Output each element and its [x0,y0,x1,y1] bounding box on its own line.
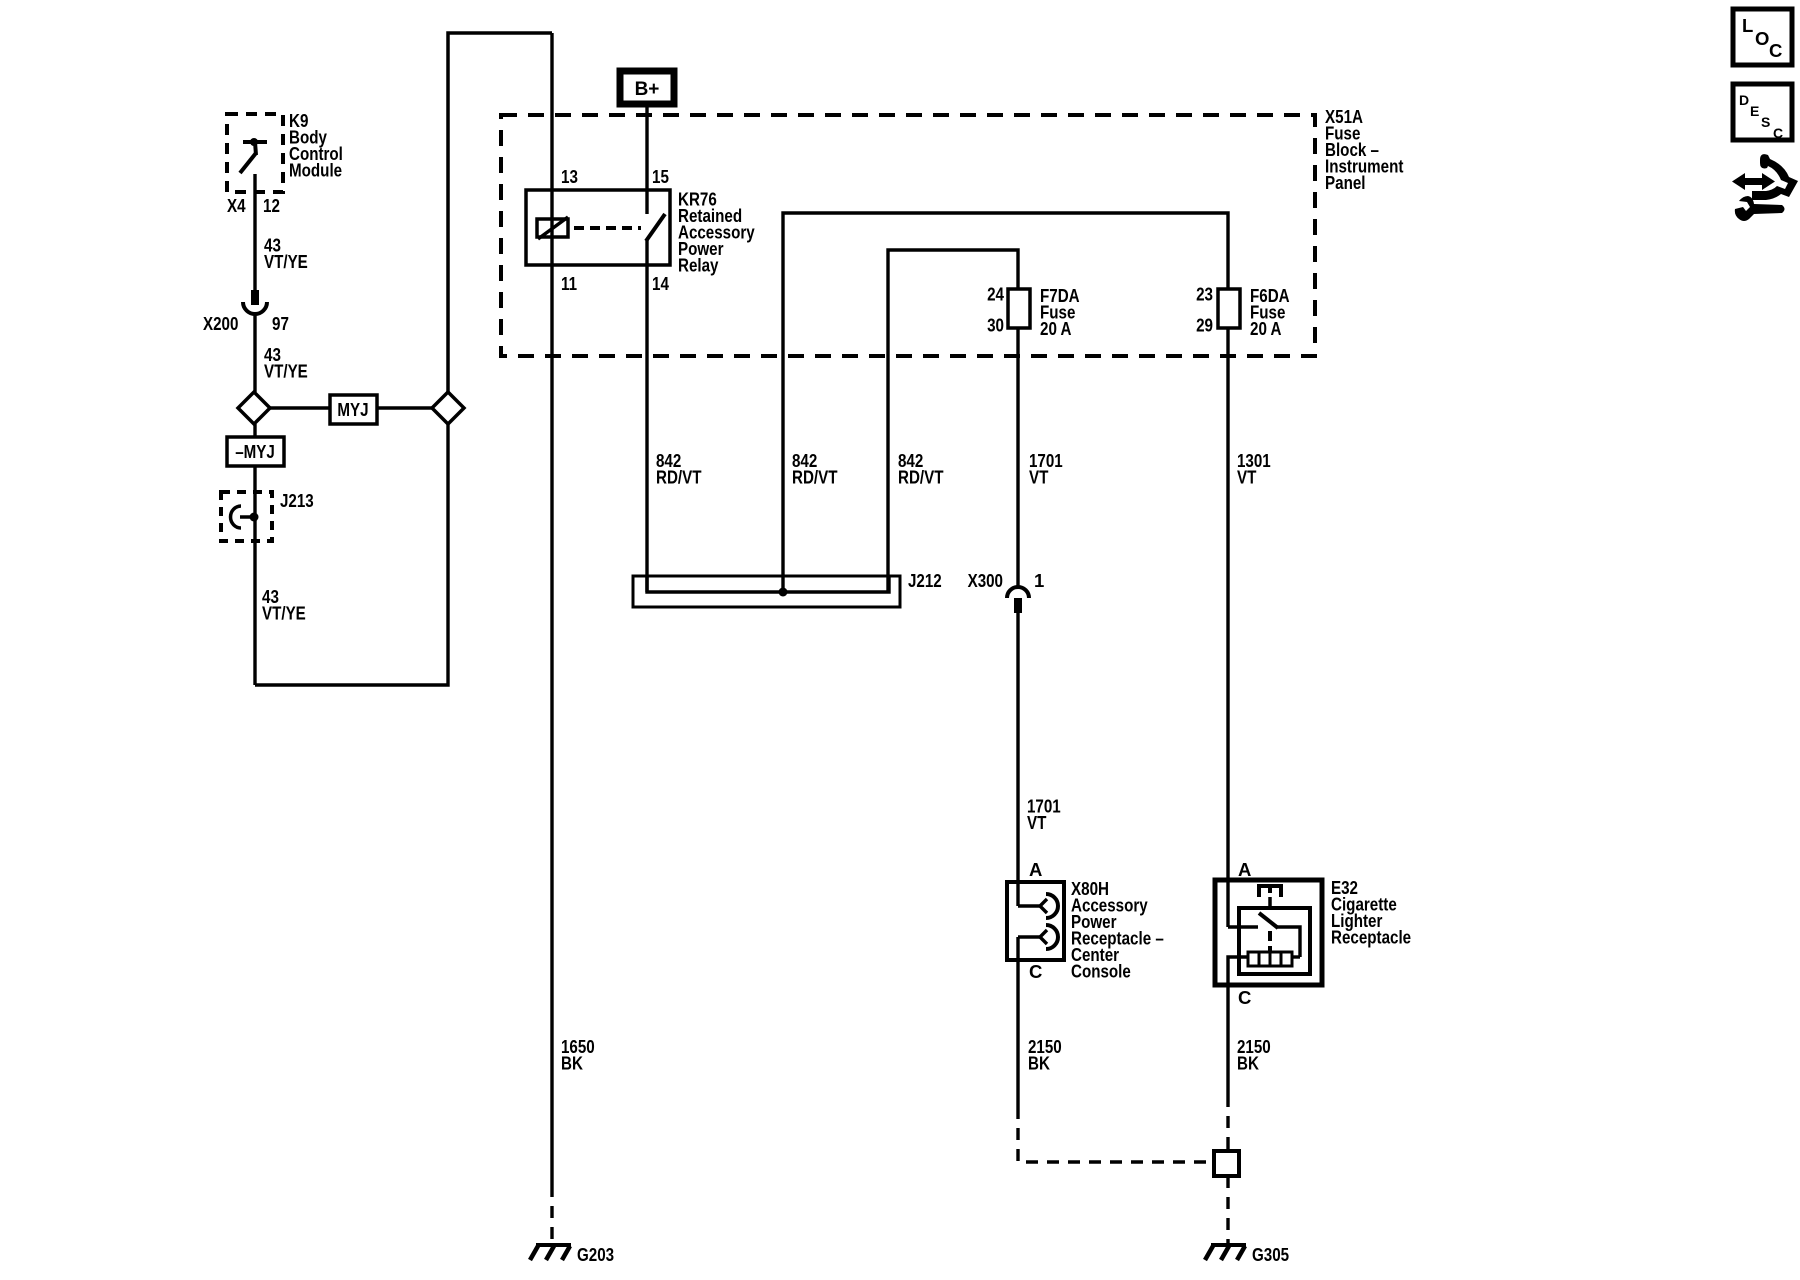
connector X4 pin 12 labels [227,195,280,216]
receptacle X80H box [1007,882,1064,960]
svg-text:1: 1 [1034,570,1044,591]
svg-text:X200: X200 [203,313,238,334]
relay KR76 box [526,190,670,265]
wire X80H pin C down [1016,960,1019,1107]
svg-text:C: C [1029,961,1042,982]
E32 plunger dashes [1268,931,1272,941]
svg-text:BK: BK [1237,1053,1259,1074]
relay switch blade [646,214,665,241]
wire label 1701 VT [1027,796,1061,834]
wire dashed E32 to junction [1226,1095,1229,1151]
wire label 43 VT/YE [264,344,308,382]
svg-text:E: E [1750,103,1759,119]
wire label 2150 BK [1237,1036,1271,1074]
svg-text:G203: G203 [577,1244,614,1265]
svg-text:J212: J212 [908,570,942,591]
E32 heater element comb [1248,952,1292,966]
svg-text:MYJ: MYJ [337,399,368,420]
connector X200 pin 97 [251,290,259,305]
svg-text:Panel: Panel [1325,172,1366,193]
wire K9 to X200 [253,174,256,291]
svg-text:RD/VT: RD/VT [656,467,702,488]
connector X300 pin 1 [1007,587,1029,598]
LOC nav box [1733,9,1792,65]
svg-text:RD/VT: RD/VT [898,467,944,488]
splice J213 (dashed box) [221,492,272,541]
E32 pin C path [1228,957,1248,1095]
wire labels 842 RD/VT x3, 1701 VT, 1301 VT [656,450,1271,488]
svg-text:VT: VT [1027,812,1047,833]
svg-text:A: A [1238,859,1251,880]
ground G305 [1205,1245,1246,1260]
svg-text:14: 14 [652,273,669,294]
diagnostic icon curved arrow [1752,154,1798,200]
svg-text:12: 12 [263,195,280,216]
diagnostic icon wrench [1735,196,1785,221]
svg-text:L: L [1742,15,1753,36]
svg-text:O: O [1755,28,1769,49]
svg-text:BK: BK [561,1053,583,1074]
wire label 43 VT/YE [262,586,306,624]
svg-text:VT: VT [1029,467,1049,488]
X80H contact C [1018,935,1040,938]
wire dashed to G203 [550,1185,553,1243]
relay link dashed [574,226,641,230]
ground junction box [1214,1151,1239,1176]
wire top-left horizontal from node to coil line [448,33,552,392]
svg-text:13: 13 [561,166,578,187]
wire dashed to ground junction [1018,1107,1214,1162]
wire below left diamond [253,424,256,437]
node diamond right [432,392,464,424]
svg-text:B+: B+ [635,79,660,100]
svg-text:24: 24 [987,284,1004,305]
svg-text:20 A: 20 A [1250,318,1282,339]
wire coil line vertical [550,33,553,1185]
svg-text:15: 15 [652,166,669,187]
svg-text:RD/VT: RD/VT [792,467,838,488]
svg-text:20 A: 20 A [1040,318,1072,339]
K9 internal driver symbol [240,138,267,173]
wire bottom loop to right diamond [255,424,448,685]
svg-text:VT/YE: VT/YE [264,361,308,382]
svg-text:Module: Module [289,160,342,181]
svg-text:X300: X300 [968,570,1003,591]
cigarette lighter E32 outer box [1215,880,1322,985]
wire F6DA to E32 [1226,328,1229,927]
svg-text:97: 97 [272,313,289,334]
svg-text:S: S [1761,114,1770,130]
E32 top contact bracket [1259,886,1281,897]
K9 label [289,110,343,181]
svg-text:Relay: Relay [678,255,719,276]
svg-text:BK: BK [1028,1053,1050,1074]
wire diamond to MYJ box [270,406,330,409]
svg-text:C: C [1773,125,1783,141]
DESC nav box [1733,84,1792,140]
splice pack J212 [633,576,900,607]
net name -MYJ box [227,437,284,466]
wire label 1650 BK [561,1036,595,1074]
wire F7DA to X300 [1016,328,1019,588]
wire relay pin 14 down to J212 [645,239,648,592]
E32 switch [1228,925,1258,928]
svg-text:23: 23 [1196,284,1213,305]
wire X300 to X80H [1016,613,1019,906]
svg-text:C: C [1238,987,1251,1008]
svg-text:11: 11 [561,273,577,294]
diagnostic icon double arrow [1732,154,1798,221]
J213 eyelet symbol [231,506,241,528]
svg-text:X4: X4 [227,195,246,216]
svg-text:A: A [1029,859,1042,880]
wire MYJ box to right diamond [377,406,432,409]
fuse F7DA 20A [1008,289,1030,328]
wire label 2150 BK [1028,1036,1062,1074]
wire fuse F7DA feed (842 RD/VT) [888,250,1018,592]
net name MYJ box [330,395,377,424]
body control module K9 (dashed box) [227,114,283,192]
svg-text:VT/YE: VT/YE [264,251,308,272]
svg-text:C: C [1769,40,1782,61]
relay coil [537,219,568,237]
wire X200 to splice diamond [253,314,256,392]
wire fuse F6DA feed (842 RD/VT) [783,213,1228,592]
svg-text:30: 30 [987,315,1004,336]
svg-text:VT: VT [1237,467,1257,488]
battery feed B+ [620,71,674,104]
svg-text:J213: J213 [280,490,314,511]
svg-text:VT/YE: VT/YE [262,603,306,624]
wire -MYJ to J213 and down [253,466,256,685]
wire label 43 VT/YE [264,235,308,273]
E32 labels [1331,877,1411,948]
fuse block X51A (dashed box) [501,115,1315,356]
svg-text:Console: Console [1071,961,1131,982]
svg-text:Receptacle: Receptacle [1331,927,1411,948]
ground G203 [530,1245,571,1260]
X80H contact A [1018,904,1040,907]
node diamond left [238,392,270,424]
wire dashed junction to G305 [1226,1176,1229,1243]
svg-text:G305: G305 [1252,1244,1289,1265]
fuse F6DA 20A [1218,289,1240,328]
svg-text:29: 29 [1196,315,1213,336]
svg-text:D: D [1739,92,1749,108]
svg-text:–MYJ: –MYJ [235,441,275,462]
wire B+ to relay pin 15 [645,104,648,214]
E32 inner box [1239,908,1310,974]
E32 element stub [1268,897,1272,908]
X80H labels [1071,878,1164,982]
